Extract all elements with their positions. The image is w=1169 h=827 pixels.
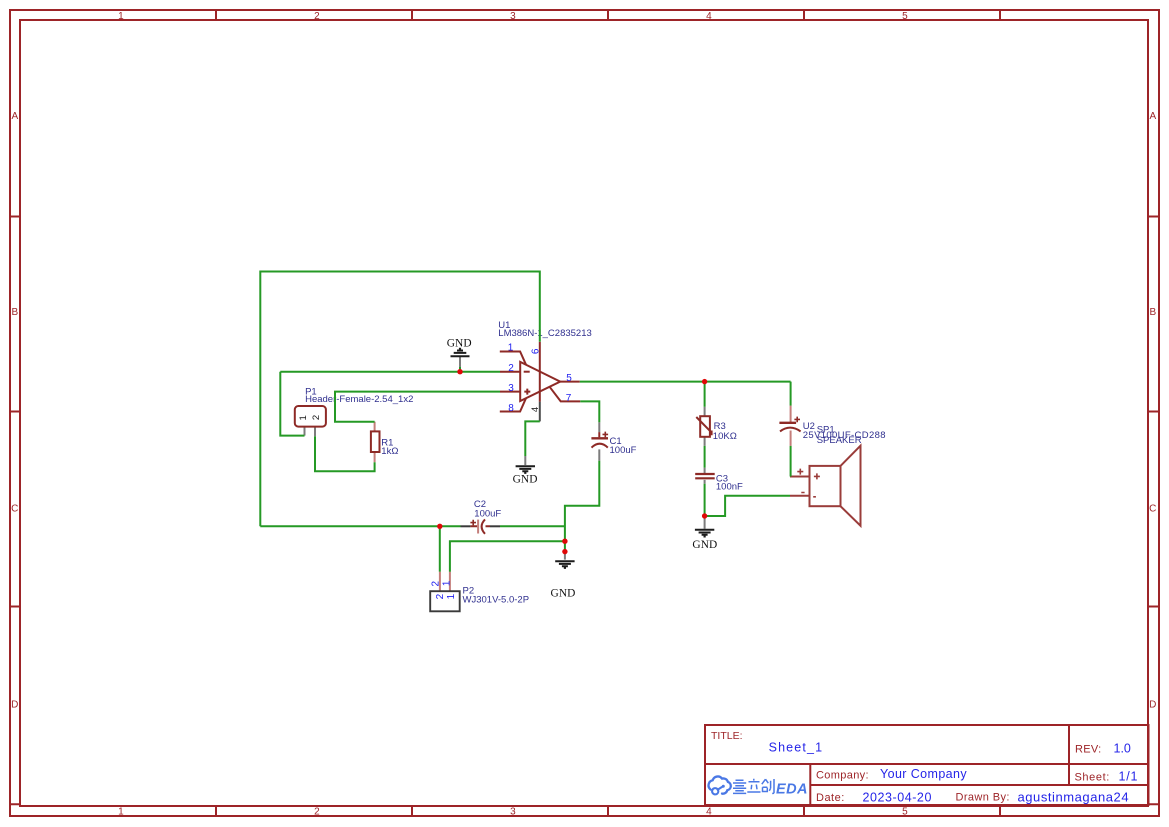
svg-text:Date:: Date: <box>816 792 845 804</box>
svg-text:1: 1 <box>118 11 124 22</box>
svg-text:4: 4 <box>530 407 541 412</box>
svg-text:C: C <box>11 504 18 515</box>
svg-text:WJ301V-5.0-2P: WJ301V-5.0-2P <box>463 595 530 606</box>
svg-text:1: 1 <box>298 415 309 420</box>
svg-text:Sheet:: Sheet: <box>1075 772 1110 784</box>
svg-text:SPEAKER: SPEAKER <box>817 435 862 446</box>
svg-text:1.0: 1.0 <box>1114 742 1131 756</box>
svg-text:A: A <box>1149 111 1156 122</box>
svg-text:1: 1 <box>118 807 124 818</box>
svg-text:6: 6 <box>531 348 542 354</box>
svg-text:5: 5 <box>566 373 572 384</box>
svg-text:2: 2 <box>508 363 514 374</box>
svg-text:EDA: EDA <box>776 782 808 798</box>
svg-text:GND: GND <box>513 474 538 486</box>
svg-text:Header-Female-2.54_1x2: Header-Female-2.54_1x2 <box>305 394 413 405</box>
svg-text:5: 5 <box>902 807 908 818</box>
svg-text:100uF: 100uF <box>474 509 501 520</box>
svg-text:GND: GND <box>447 337 472 349</box>
svg-text:3: 3 <box>510 11 516 22</box>
svg-text:agustinmagana24: agustinmagana24 <box>1018 790 1130 805</box>
svg-text:Your Company: Your Company <box>880 767 967 781</box>
svg-text:REV:: REV: <box>1075 744 1101 756</box>
svg-text:1: 1 <box>441 580 452 586</box>
svg-text:1: 1 <box>446 593 457 599</box>
svg-text:Sheet_1: Sheet_1 <box>769 741 824 755</box>
svg-text:3: 3 <box>510 807 516 818</box>
svg-text:1: 1 <box>508 342 514 353</box>
svg-text:2: 2 <box>430 580 441 586</box>
svg-text:10KΩ: 10KΩ <box>713 431 737 442</box>
svg-text:C: C <box>1149 504 1156 515</box>
svg-text:2: 2 <box>314 807 320 818</box>
svg-text:4: 4 <box>706 807 712 818</box>
svg-text:D: D <box>1149 700 1156 711</box>
svg-text:GND: GND <box>692 539 717 551</box>
svg-text:4: 4 <box>706 11 712 22</box>
svg-text:LM386N-1_C2835213: LM386N-1_C2835213 <box>498 328 591 339</box>
svg-text:TITLE:: TITLE: <box>711 730 743 742</box>
svg-text:GND: GND <box>551 587 576 599</box>
svg-text:2: 2 <box>314 11 320 22</box>
svg-text:8: 8 <box>508 403 514 414</box>
svg-text:7: 7 <box>566 393 572 404</box>
svg-text:SP1: SP1 <box>817 425 835 436</box>
svg-text:100nF: 100nF <box>716 481 743 492</box>
svg-text:2: 2 <box>311 415 322 420</box>
svg-text:1kΩ: 1kΩ <box>381 446 398 457</box>
svg-text:Company:: Company: <box>816 770 869 782</box>
svg-text:100uF: 100uF <box>610 445 637 456</box>
svg-text:A: A <box>11 111 18 122</box>
svg-text:B: B <box>1149 307 1156 318</box>
svg-text:D: D <box>11 700 18 711</box>
svg-text:2: 2 <box>435 593 446 599</box>
svg-text:Drawn By:: Drawn By: <box>956 792 1010 804</box>
svg-text:3: 3 <box>508 383 514 394</box>
svg-text:5: 5 <box>902 11 908 22</box>
svg-text:1/1: 1/1 <box>1119 770 1139 784</box>
svg-text:2023-04-20: 2023-04-20 <box>863 791 932 805</box>
svg-text:B: B <box>11 307 18 318</box>
